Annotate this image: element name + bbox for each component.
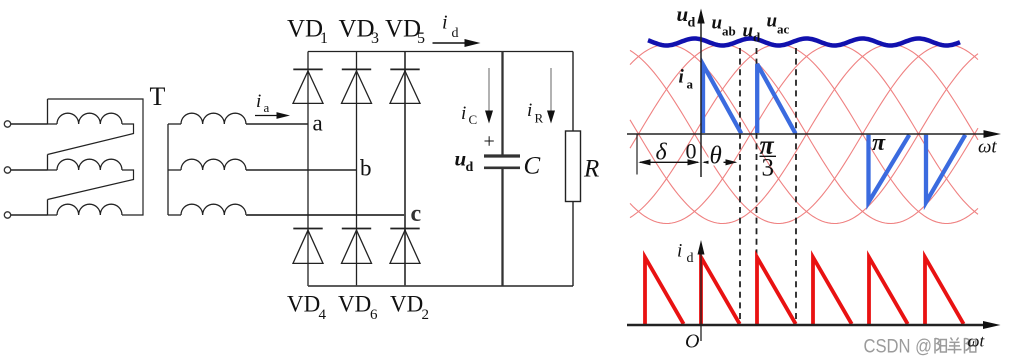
node dashed guide line 2	[756, 48, 758, 319]
diode VD5	[390, 68, 419, 70]
wire sine curve 6 (line voltage, phase 300 deg)	[630, 45, 978, 224]
axis horizontal (lower plot)	[627, 324, 990, 326]
wire delta link winding3 back to top	[48, 99, 144, 215]
wire negative dc bus	[308, 285, 573, 287]
svg-text:u: u	[677, 2, 689, 26]
wire secondary stub a	[168, 123, 181, 125]
svg-text:ac: ac	[777, 22, 790, 37]
svg-text:VD: VD	[390, 292, 423, 317]
dimension arrow delta	[640, 161, 698, 163]
watermark glyph yang1	[935, 338, 946, 354]
wire sine curve 3 (line voltage, phase 120 deg)	[630, 45, 978, 224]
terminal circle phase B input	[4, 167, 10, 173]
terminal circle phase A input	[4, 121, 10, 127]
diode VD4	[293, 228, 322, 230]
wire id current pulse 5 (red)	[869, 257, 908, 324]
svg-text:VD: VD	[287, 16, 323, 43]
transformer secondary winding b	[181, 159, 246, 170]
wire id current pulse 2 (red)	[701, 257, 740, 324]
wire primary left stub 2	[48, 155, 58, 171]
wire secondary star bus	[167, 124, 169, 215]
svg-text:u: u	[743, 20, 754, 41]
wire bridge leg 3 (VD5/VD2 column)	[404, 52, 406, 287]
wire ia negative pulse 1 (blue)	[869, 135, 910, 203]
wire ia current pulse 2 (blue)	[757, 64, 795, 134]
resistor R branch wire upper	[572, 52, 574, 132]
current arrow i_C	[488, 68, 490, 112]
wire ia negative pulse 2 (blue)	[926, 135, 965, 203]
diode VD3	[342, 68, 371, 70]
resistor R body	[566, 131, 581, 202]
wire id current pulse 6 (red)	[925, 257, 964, 324]
diode VD2	[390, 228, 419, 230]
svg-text:5: 5	[417, 30, 425, 47]
wire delta link winding1 to winding2	[48, 124, 134, 155]
axis horizontal (upper plot)	[627, 133, 990, 135]
wire ud ripple waveform (thick blue)	[648, 39, 960, 46]
svg-text:C: C	[524, 153, 541, 180]
svg-text:VD: VD	[339, 16, 375, 43]
svg-text:d: d	[466, 160, 474, 175]
transformer T primary winding 3	[57, 204, 122, 215]
transformer secondary winding a	[181, 113, 246, 124]
wire positive dc bus	[308, 51, 573, 53]
capacitor C plates	[484, 154, 520, 157]
svg-text:3: 3	[371, 30, 379, 47]
svg-text:δ: δ	[656, 140, 668, 166]
wire secondary stub b	[168, 169, 181, 171]
wire input A	[11, 123, 48, 125]
wire ia current pulse 1 (blue)	[703, 65, 741, 134]
svg-text:6: 6	[370, 307, 378, 323]
svg-text:+: +	[484, 131, 495, 153]
capacitor C branch wire lower	[501, 169, 503, 286]
svg-text:0: 0	[686, 139, 697, 164]
svg-text:a: a	[313, 111, 323, 136]
axis vertical ud (upper plot)	[700, 18, 702, 177]
svg-text:a: a	[687, 77, 694, 92]
wire sine curve 2 (line voltage, phase 60 deg)	[630, 45, 978, 224]
current arrow i_d	[433, 42, 468, 44]
svg-text:VD: VD	[385, 16, 421, 43]
wire primary left stub 1	[48, 99, 58, 124]
svg-text:1: 1	[320, 30, 328, 47]
wire sine curve 5 (line voltage, phase 240 deg)	[630, 45, 978, 224]
svg-text:i: i	[679, 67, 685, 88]
svg-text:C: C	[469, 112, 478, 127]
svg-text:i: i	[527, 100, 532, 121]
wire bridge leg 2 (VD3/VD6 column)	[356, 52, 358, 287]
wire primary left stub 3	[48, 200, 58, 216]
svg-text:3: 3	[762, 155, 775, 182]
svg-text:d: d	[452, 26, 459, 41]
svg-text:u: u	[712, 12, 723, 33]
node dashed guide line 3	[795, 48, 797, 319]
wire phase c to bridge node c	[246, 214, 405, 216]
wire id current pulse 1 (red)	[645, 257, 684, 324]
svg-text:2: 2	[422, 307, 430, 323]
wire phase b to bridge node b	[246, 169, 357, 171]
svg-text:ab: ab	[722, 24, 736, 39]
resistor R branch wire lower	[572, 202, 574, 287]
diode VD6	[342, 228, 371, 230]
svg-text:θ: θ	[710, 143, 722, 170]
wire delta-angle boundary tick	[636, 134, 638, 175]
watermark glyph yang2	[948, 338, 962, 354]
wire id current pulse 4 (red)	[813, 257, 852, 324]
axis vertical id (lower plot)	[700, 250, 702, 341]
svg-text:R: R	[583, 156, 599, 183]
watermark glyph yang3	[965, 338, 976, 354]
svg-text:d: d	[753, 30, 761, 45]
node dashed guide line 1	[739, 48, 741, 319]
svg-text:R: R	[535, 111, 544, 126]
capacitor C branch wire upper	[501, 52, 503, 155]
svg-text:T: T	[150, 82, 166, 111]
svg-text:a: a	[264, 100, 270, 115]
svg-text:c: c	[411, 201, 422, 227]
svg-text:i: i	[256, 91, 261, 112]
wire bridge leg 1 (VD1/VD4 column)	[307, 52, 309, 287]
svg-text:O: O	[685, 331, 699, 353]
svg-text:i: i	[442, 12, 448, 34]
svg-text:VD: VD	[338, 292, 371, 317]
svg-text:d: d	[688, 16, 696, 31]
wire sine curve 1 (line voltage, phase 0 deg)	[630, 45, 978, 224]
svg-text:ωt: ωt	[968, 332, 986, 351]
svg-text:d: d	[687, 251, 694, 266]
wire input C	[11, 214, 48, 216]
diode VD1	[293, 68, 322, 70]
wire input B	[11, 169, 48, 171]
svg-text:b: b	[360, 156, 372, 181]
wire id current pulse 3 (red)	[757, 257, 796, 324]
svg-text:i: i	[461, 103, 466, 124]
wire delta link winding2 to winding3	[48, 170, 134, 200]
terminal circle phase C input	[4, 212, 10, 218]
transformer T primary winding 2	[57, 159, 122, 170]
svg-text:ωt: ωt	[978, 137, 997, 158]
svg-text:CSDN @: CSDN @	[864, 336, 933, 358]
wire sine curve 4 (line voltage, phase 180 deg)	[630, 45, 978, 224]
current arrow i_a	[255, 115, 279, 117]
dimension arrow theta	[704, 161, 736, 163]
wire phase a to bridge node a	[246, 123, 308, 125]
svg-text:u: u	[455, 147, 467, 171]
svg-text:4: 4	[319, 307, 327, 323]
svg-text:π: π	[872, 130, 886, 156]
transformer secondary winding c	[181, 204, 246, 215]
label theta	[709, 145, 724, 166]
svg-text:VD: VD	[287, 292, 320, 317]
svg-text:u: u	[767, 10, 778, 31]
transformer T primary winding 1	[57, 113, 122, 124]
current arrow i_R	[550, 68, 552, 112]
svg-text:i: i	[677, 241, 682, 262]
wire secondary stub c	[168, 214, 181, 216]
